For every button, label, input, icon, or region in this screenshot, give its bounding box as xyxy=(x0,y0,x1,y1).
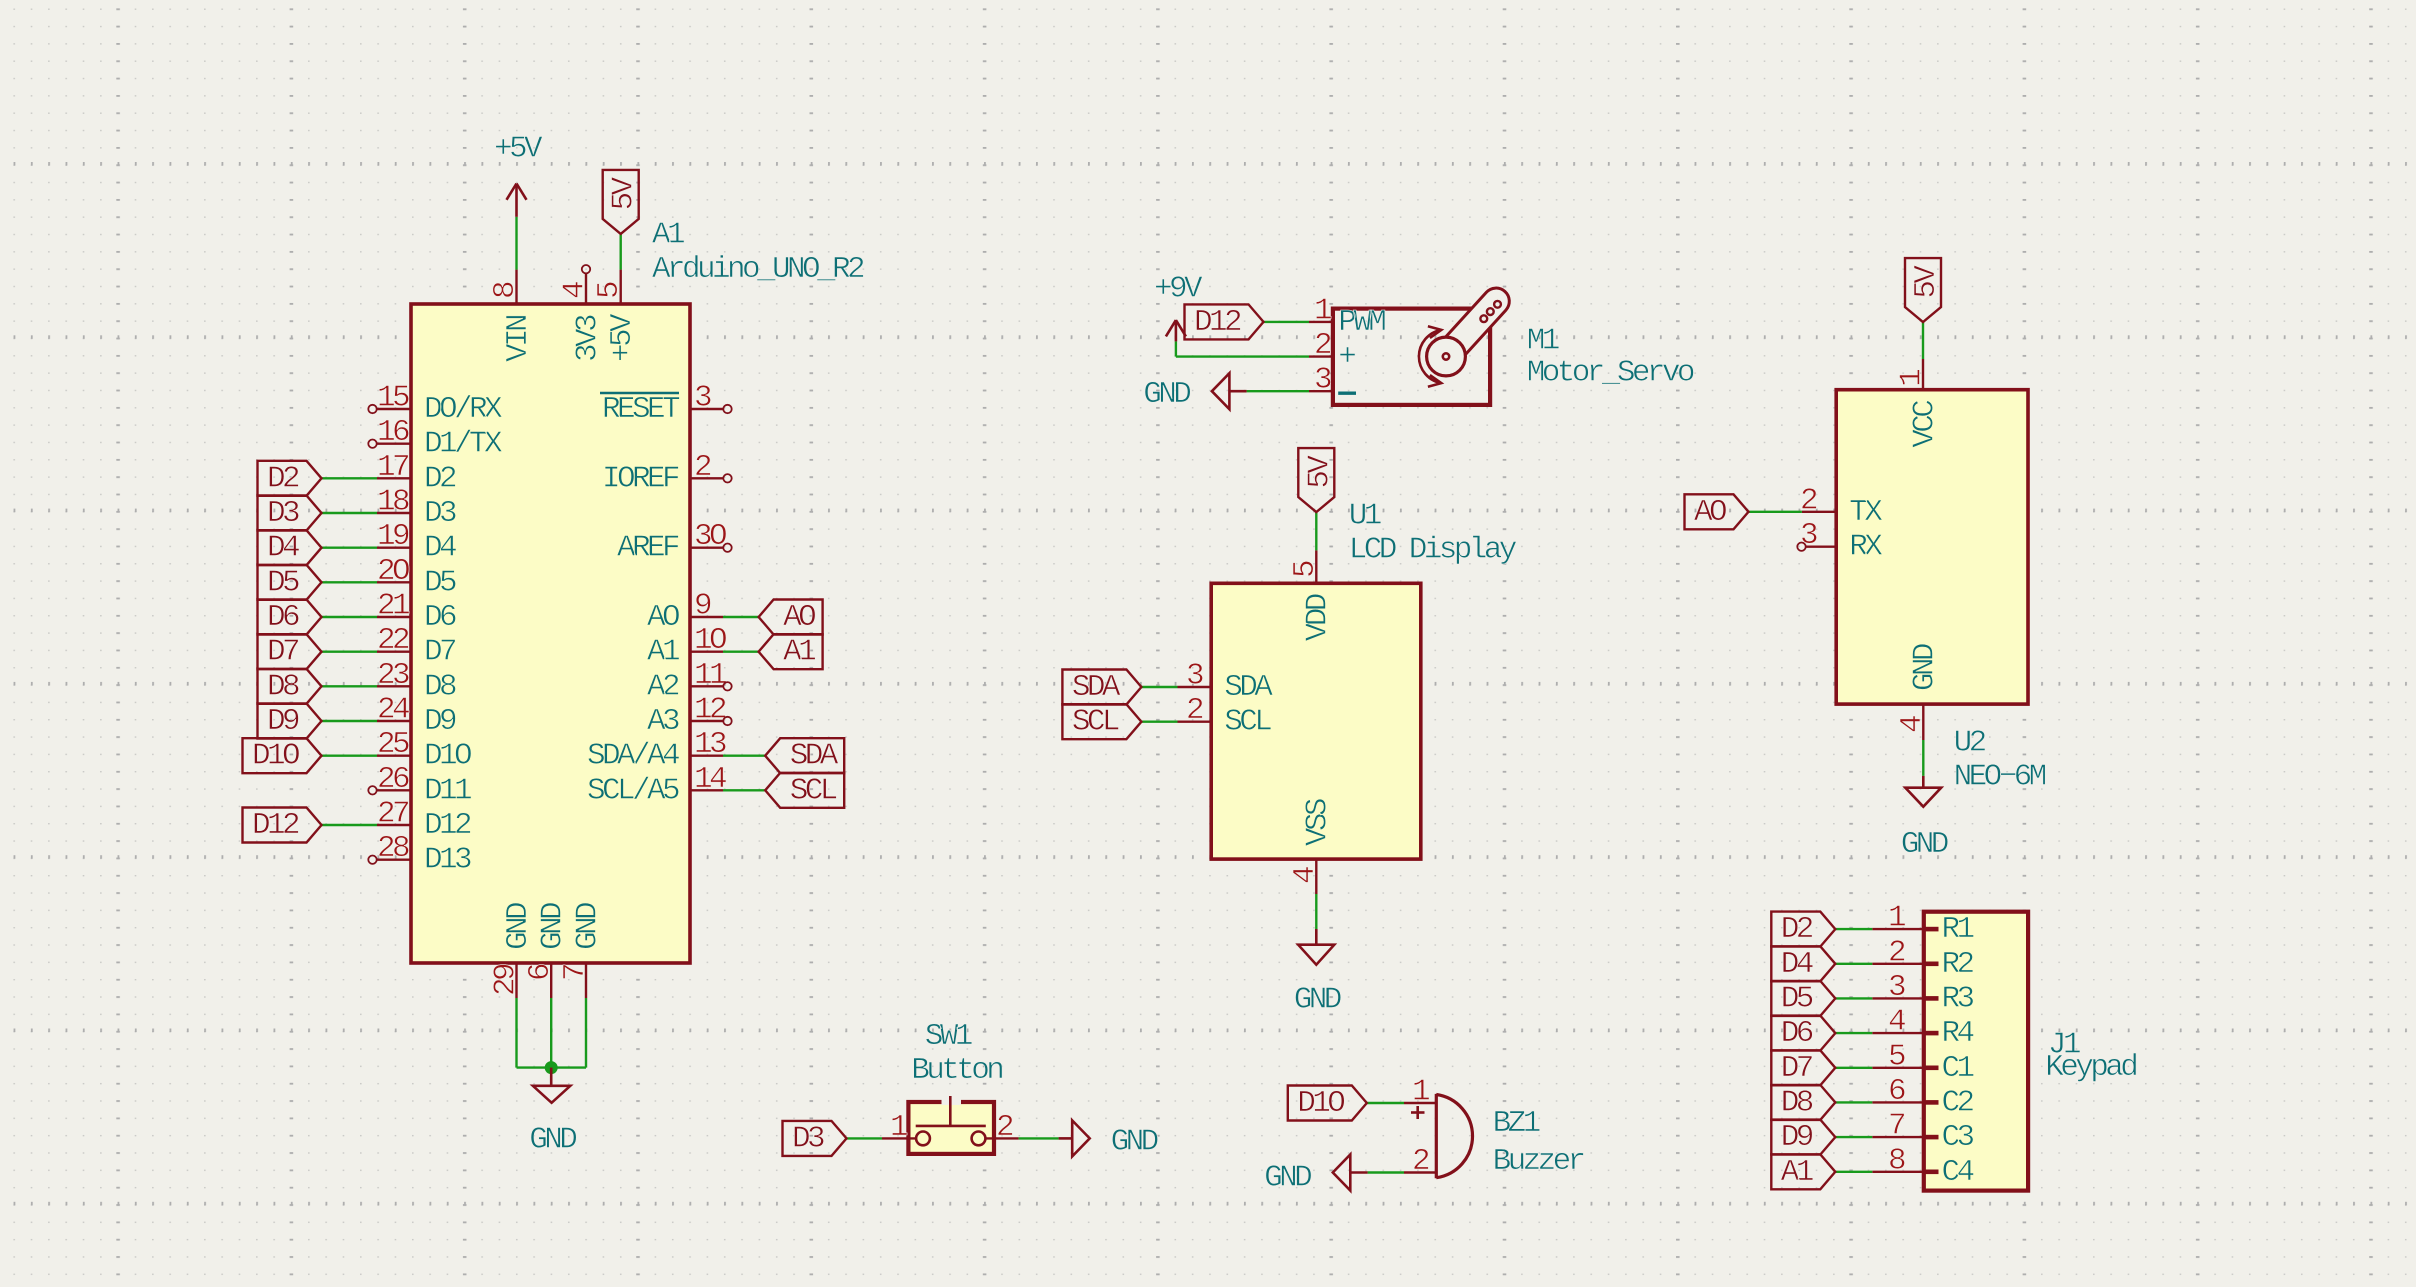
wire 5V to VCC xyxy=(1922,322,1924,359)
servo horn holes xyxy=(1480,315,1487,322)
svg-text:A2: A2 xyxy=(647,669,679,704)
svg-text:D12: D12 xyxy=(1194,305,1241,340)
global label D7 xyxy=(258,634,322,669)
wire to label D4 xyxy=(322,547,378,549)
global label 5V xyxy=(603,170,639,234)
svg-text:29: 29 xyxy=(489,964,524,996)
wire D10 to pin1 xyxy=(1367,1102,1404,1104)
wire D3 to pin1 xyxy=(847,1137,883,1139)
svg-text:VSS: VSS xyxy=(1301,798,1336,846)
svg-text:Button: Button xyxy=(911,1053,1002,1088)
svg-text:D3: D3 xyxy=(424,496,456,531)
svg-text:DO/RX: DO/RX xyxy=(424,392,503,427)
global label A1 xyxy=(1771,1154,1835,1189)
svg-text:AREF: AREF xyxy=(617,531,679,566)
wire D9 to pin 7 xyxy=(1835,1136,1872,1138)
svg-text:GND: GND xyxy=(501,902,536,950)
svg-text:D4: D4 xyxy=(1781,947,1814,982)
power symbol +9V xyxy=(1175,320,1178,341)
symbol M1 Motor_Servo body xyxy=(1333,309,1490,405)
J1 pin 2 R2 xyxy=(1872,963,1924,965)
svg-text:11: 11 xyxy=(694,658,727,693)
svg-text:3: 3 xyxy=(1800,518,1817,553)
svg-text:A3: A3 xyxy=(647,704,679,739)
svg-text:15: 15 xyxy=(377,381,409,416)
BZ1 pin 1 + xyxy=(1404,1102,1437,1104)
A1 pin 30 AREF xyxy=(690,547,723,549)
U2 pin 2 TX xyxy=(1802,511,1836,513)
wire A0 to TX xyxy=(1749,511,1802,513)
SW1 actuator xyxy=(949,1096,952,1126)
svg-text:VDD: VDD xyxy=(1301,593,1336,641)
svg-text:GND: GND xyxy=(1143,377,1191,412)
J1 pin 1 R1 xyxy=(1872,928,1924,930)
A1 pin 26 D11 xyxy=(377,789,411,791)
svg-text:9: 9 xyxy=(694,589,711,624)
svg-text:RESET: RESET xyxy=(602,392,680,427)
svg-text:3: 3 xyxy=(1186,659,1203,694)
svg-text:26: 26 xyxy=(377,762,409,797)
global label D10 xyxy=(1288,1086,1367,1121)
wire 5V to VDD xyxy=(1315,512,1317,550)
A1 pin 3 RESET xyxy=(690,408,723,410)
A1 pin 9 A0 xyxy=(690,616,723,618)
svg-text:GND: GND xyxy=(570,902,605,950)
svg-text:U2: U2 xyxy=(1954,725,1986,760)
svg-text:BZ1: BZ1 xyxy=(1493,1106,1541,1141)
U2 pin 4 GND xyxy=(1922,704,1924,740)
J1 pin 6 C2 xyxy=(1872,1101,1924,1103)
svg-text:AO: AO xyxy=(1694,495,1727,530)
svg-text:19: 19 xyxy=(377,519,409,554)
svg-text:D6: D6 xyxy=(267,600,299,635)
A1 pin 4 3V3 (nc) xyxy=(585,274,587,305)
svg-text:R2: R2 xyxy=(1942,947,1974,982)
wire A1 to pin 8 xyxy=(1835,1171,1872,1173)
wire pin29 down xyxy=(515,998,517,1068)
svg-text:Buzzer: Buzzer xyxy=(1493,1144,1584,1179)
svg-text:5V: 5V xyxy=(1302,455,1337,489)
svg-text:LCD Display: LCD Display xyxy=(1349,532,1517,567)
global label D12 xyxy=(1185,304,1264,339)
A1 pin 24 D9 xyxy=(377,720,411,722)
symbol A1 Arduino_UNO_R2 body xyxy=(411,304,690,963)
svg-text:D8: D8 xyxy=(1781,1085,1813,1120)
svg-text:21: 21 xyxy=(377,589,410,624)
wire pin2 to GND xyxy=(1368,1171,1404,1173)
wire to label D5 xyxy=(322,581,378,583)
wire GND xyxy=(1922,740,1924,776)
wire SCL xyxy=(1141,721,1177,723)
svg-text:16: 16 xyxy=(377,415,409,450)
global label SCL xyxy=(765,773,844,808)
U1 pin 3 SDA xyxy=(1178,686,1212,688)
A1 pin 17 D2 xyxy=(377,477,411,479)
svg-text:M1: M1 xyxy=(1527,324,1560,359)
M1 pin 1 PWM xyxy=(1309,321,1333,323)
power symbol +5V xyxy=(515,184,518,217)
A1 pin 10 A1 xyxy=(690,651,723,653)
A1 pin 22 D7 xyxy=(377,651,411,653)
svg-text:D1O: D1O xyxy=(1297,1086,1345,1121)
svg-text:2: 2 xyxy=(1186,693,1203,728)
svg-text:24: 24 xyxy=(377,693,410,728)
global label D9 xyxy=(258,704,322,739)
J1 pin 8 C4 xyxy=(1872,1171,1924,1173)
svg-text:GND: GND xyxy=(536,902,571,950)
wire to label D6 xyxy=(322,616,378,618)
wire pin7 down xyxy=(585,998,587,1068)
ground symbol GND right xyxy=(1059,1137,1073,1140)
svg-text:D2: D2 xyxy=(267,461,299,496)
svg-text:A1: A1 xyxy=(652,218,685,253)
svg-text:28: 28 xyxy=(377,831,409,866)
global label A0 xyxy=(759,600,823,635)
svg-text:D1O: D1O xyxy=(252,739,300,774)
A1 pin 18 D3 xyxy=(377,512,411,514)
A1 pin 14 SCL/A5 xyxy=(690,789,723,791)
SW1 contacts xyxy=(916,1132,930,1146)
A1 pin 7 GND xyxy=(585,963,587,998)
svg-text:22: 22 xyxy=(377,623,409,658)
A1 pin 6 GND xyxy=(550,963,552,998)
A1 pin 27 D12 xyxy=(377,824,411,826)
SW1 top border gap xyxy=(942,1099,962,1105)
svg-text:A1: A1 xyxy=(647,635,680,670)
wire pin5 to 5V flag xyxy=(620,234,622,270)
wire to label A1 xyxy=(723,651,759,653)
svg-text:U1: U1 xyxy=(1349,498,1382,533)
svg-text:D3: D3 xyxy=(267,496,299,531)
svg-text:+9V: +9V xyxy=(1154,272,1203,307)
global label SCL xyxy=(1062,704,1141,739)
svg-text:6: 6 xyxy=(523,964,558,981)
svg-text:2: 2 xyxy=(694,450,711,485)
svg-text:NEO−6M: NEO−6M xyxy=(1954,760,2046,795)
svg-text:D13: D13 xyxy=(424,843,471,878)
symbol SW1 Button body xyxy=(908,1102,994,1154)
svg-text:D6: D6 xyxy=(1781,1016,1813,1051)
wire +9V vertical xyxy=(1175,341,1177,356)
A1 pin 15 D0/RX xyxy=(377,408,411,410)
J1 pin 5 C1 xyxy=(1872,1067,1924,1069)
svg-text:3O: 3O xyxy=(694,519,727,554)
svg-text:Arduino_UNO_R2: Arduino_UNO_R2 xyxy=(652,252,864,287)
svg-text:5V: 5V xyxy=(1909,265,1944,299)
global label D12 xyxy=(243,808,322,843)
svg-text:27: 27 xyxy=(377,797,409,832)
A1 pin 2 IOREF xyxy=(690,477,723,479)
symbol BZ1 Buzzer body xyxy=(1436,1094,1472,1178)
A1 pin 25 D10 xyxy=(377,755,411,757)
wire D6 to pin 4 xyxy=(1835,1032,1872,1034)
svg-text:C4: C4 xyxy=(1942,1155,1975,1190)
svg-text:A1: A1 xyxy=(783,635,816,670)
svg-text:A1: A1 xyxy=(1781,1155,1814,1190)
A1 pin 28 D13 xyxy=(377,859,411,861)
global label SDA xyxy=(765,738,844,773)
svg-text:GND: GND xyxy=(1901,827,1949,862)
RESET overbar xyxy=(600,392,679,394)
svg-text:VIN: VIN xyxy=(501,315,536,362)
svg-text:D9: D9 xyxy=(267,704,299,739)
global label D3 xyxy=(258,496,322,531)
svg-text:6: 6 xyxy=(1888,1074,1905,1109)
svg-text:8: 8 xyxy=(488,282,523,299)
global label D6 xyxy=(1771,1016,1835,1051)
wire to label SCL xyxy=(723,789,765,791)
svg-text:25: 25 xyxy=(377,727,409,762)
wire to label D12 xyxy=(322,824,378,826)
svg-text:R1: R1 xyxy=(1942,912,1975,947)
M1 pin 2 + xyxy=(1309,355,1333,357)
svg-text:+5V: +5V xyxy=(494,132,543,167)
A1 pin 8 VIN xyxy=(515,270,517,304)
svg-text:TX: TX xyxy=(1849,495,1883,530)
A1 pin 13 SDA/A4 xyxy=(690,755,723,757)
global label 5V xyxy=(1905,258,1941,322)
svg-text:Keypad: Keypad xyxy=(2045,1050,2136,1085)
U1 pin 5 VDD xyxy=(1315,550,1317,583)
wire D8 to pin 6 xyxy=(1835,1101,1872,1103)
global label D7 xyxy=(1771,1050,1835,1085)
svg-text:D2: D2 xyxy=(1781,912,1813,947)
svg-text:D11: D11 xyxy=(424,773,472,808)
A1 pin 12 A3 xyxy=(690,720,723,722)
svg-text:D2: D2 xyxy=(424,461,456,496)
svg-text:AO: AO xyxy=(647,600,680,635)
svg-text:D7: D7 xyxy=(267,635,299,670)
ground symbol GND left xyxy=(1230,390,1247,393)
svg-text:D7: D7 xyxy=(1781,1051,1813,1086)
svg-text:D5: D5 xyxy=(1781,981,1813,1016)
global label D8 xyxy=(258,669,322,704)
A1 pin 5 +5V xyxy=(620,270,622,304)
svg-text:5: 5 xyxy=(592,282,627,299)
svg-text:3: 3 xyxy=(694,381,711,416)
wire pin6 down xyxy=(550,998,552,1068)
svg-text:C1: C1 xyxy=(1942,1051,1975,1086)
wire D4 to pin 2 xyxy=(1835,963,1872,965)
svg-text:D4: D4 xyxy=(267,531,300,566)
wire +9V to pin2 horizontal xyxy=(1176,355,1309,357)
wire D12 to PWM xyxy=(1264,321,1310,323)
global label A1 xyxy=(759,634,823,669)
wire D2 to pin 1 xyxy=(1835,928,1872,930)
svg-text:3V3: 3V3 xyxy=(570,315,605,362)
SW1 pin 2 xyxy=(986,1137,1019,1139)
symbol U2 NEO-6M body xyxy=(1836,390,2028,704)
wire to label D9 xyxy=(322,720,378,722)
wire pin3 to GND xyxy=(1247,390,1309,392)
svg-text:D7: D7 xyxy=(424,635,456,670)
wire VSS to GND xyxy=(1315,894,1317,929)
global label SDA xyxy=(1062,670,1141,705)
global label D8 xyxy=(1771,1085,1835,1120)
svg-text:5: 5 xyxy=(1888,1039,1905,1074)
svg-text:23: 23 xyxy=(377,658,409,693)
servo rotation arrows xyxy=(1419,330,1441,383)
global label D5 xyxy=(1771,981,1835,1016)
global label D2 xyxy=(1771,912,1835,947)
BZ1 pin 2 - xyxy=(1404,1171,1437,1173)
global label D4 xyxy=(258,530,322,565)
wire to label A0 xyxy=(723,616,759,618)
global label D10 xyxy=(243,738,322,773)
svg-text:GND: GND xyxy=(1908,643,1943,691)
A1 pin 19 D4 xyxy=(377,547,411,549)
junction xyxy=(545,1061,558,1074)
wire SDA xyxy=(1141,686,1177,688)
svg-text:C3: C3 xyxy=(1942,1120,1974,1155)
wire D7 to pin 5 xyxy=(1835,1067,1872,1069)
svg-text:17: 17 xyxy=(377,450,409,485)
A1 pin 16 D1/TX xyxy=(377,443,411,445)
A1 pin 21 D6 xyxy=(377,616,411,618)
svg-text:D4: D4 xyxy=(424,531,457,566)
U2 pin 1 VCC xyxy=(1922,359,1924,390)
wire VIN to +5V xyxy=(515,217,517,270)
wire to label D2 xyxy=(322,477,378,479)
svg-text:D5: D5 xyxy=(267,565,299,600)
svg-text:RX: RX xyxy=(1849,530,1883,565)
global label A0 xyxy=(1685,494,1749,529)
svg-text:2: 2 xyxy=(1314,328,1331,363)
A1 pin 20 D5 xyxy=(377,581,411,583)
svg-text:D9: D9 xyxy=(1781,1120,1813,1155)
svg-text:Motor_Servo: Motor_Servo xyxy=(1527,356,1694,391)
U1 pin 2 SCL xyxy=(1178,721,1212,723)
svg-text:IOREF: IOREF xyxy=(602,461,679,496)
svg-text:18: 18 xyxy=(377,485,409,520)
svg-text:PWM: PWM xyxy=(1338,305,1385,340)
A1 pin 29 GND xyxy=(515,963,517,998)
global label 5V xyxy=(1298,448,1334,512)
J1 pin 3 R3 xyxy=(1872,997,1924,999)
wire GND bus horizontal xyxy=(517,1066,587,1068)
wire to label D7 xyxy=(322,651,378,653)
svg-text:R4: R4 xyxy=(1942,1016,1975,1051)
ground symbol GND left xyxy=(1350,1171,1367,1174)
svg-text:GND: GND xyxy=(1264,1161,1312,1196)
svg-text:D5: D5 xyxy=(424,565,456,600)
svg-text:D1/TX: D1/TX xyxy=(424,427,503,462)
svg-text:VCC: VCC xyxy=(1907,400,1942,448)
global label D3 xyxy=(783,1121,847,1156)
wire to label D3 xyxy=(322,512,378,514)
svg-text:GND: GND xyxy=(1111,1125,1159,1160)
ground symbol xyxy=(550,1068,553,1086)
svg-text:13: 13 xyxy=(694,727,726,762)
wire pin2 to GND xyxy=(1019,1137,1059,1139)
wire D5 to pin 3 xyxy=(1835,997,1872,999)
wire to label D10 xyxy=(322,755,378,757)
svg-text:SCL/A5: SCL/A5 xyxy=(587,773,679,808)
svg-text:GND: GND xyxy=(529,1123,577,1158)
svg-text:8: 8 xyxy=(1888,1143,1905,1178)
svg-text:5: 5 xyxy=(1288,561,1323,578)
svg-text:+5V: +5V xyxy=(605,313,640,362)
A1 pin 23 D8 xyxy=(377,685,411,687)
global label D6 xyxy=(258,600,322,635)
svg-text:D3: D3 xyxy=(792,1121,824,1156)
svg-text:2O: 2O xyxy=(377,554,410,589)
J1 pin 7 C3 xyxy=(1872,1136,1924,1138)
svg-text:GND: GND xyxy=(1294,983,1342,1018)
svg-text:SCL: SCL xyxy=(1224,705,1271,740)
svg-text:5V: 5V xyxy=(607,176,642,210)
symbol J1 Keypad body xyxy=(1924,912,2028,1191)
svg-text:2: 2 xyxy=(1888,935,1905,970)
svg-text:SW1: SW1 xyxy=(925,1019,973,1054)
svg-text:AO: AO xyxy=(783,600,816,635)
A1 pin 11 A2 xyxy=(690,685,723,687)
U1 pin 4 VSS xyxy=(1315,859,1317,894)
svg-text:D6: D6 xyxy=(424,600,456,635)
M1 pin 3 - xyxy=(1309,390,1333,392)
svg-text:SDA: SDA xyxy=(1224,670,1273,705)
svg-text:R3: R3 xyxy=(1942,981,1974,1016)
svg-text:D8: D8 xyxy=(424,669,456,704)
svg-text:1O: 1O xyxy=(694,623,727,658)
svg-text:2: 2 xyxy=(1800,483,1817,518)
svg-text:C2: C2 xyxy=(1942,1085,1974,1120)
svg-text:12: 12 xyxy=(694,693,726,728)
svg-text:14: 14 xyxy=(694,762,727,797)
svg-text:2: 2 xyxy=(996,1110,1013,1145)
svg-text:7: 7 xyxy=(558,964,593,981)
svg-text:SDA/A4: SDA/A4 xyxy=(587,739,680,774)
servo horn arm xyxy=(1436,288,1509,365)
ground symbol xyxy=(1315,929,1318,945)
svg-text:D9: D9 xyxy=(424,704,456,739)
svg-text:SCL: SCL xyxy=(790,773,837,808)
svg-text:D12: D12 xyxy=(424,808,471,843)
ground symbol xyxy=(1922,776,1925,788)
svg-text:D12: D12 xyxy=(252,808,299,843)
svg-text:SCL: SCL xyxy=(1072,705,1119,740)
svg-text:+: + xyxy=(1338,340,1355,375)
svg-text:3: 3 xyxy=(1888,970,1905,1005)
wire to label SDA xyxy=(723,755,765,757)
svg-text:SDA: SDA xyxy=(1072,670,1121,705)
global label D5 xyxy=(258,565,322,600)
svg-text:D1O: D1O xyxy=(424,739,472,774)
wire to label D8 xyxy=(322,685,378,687)
servo wheel xyxy=(1427,337,1466,376)
U2 pin 3 RX (nc) xyxy=(1806,546,1836,548)
svg-text:3: 3 xyxy=(1314,363,1331,398)
J1 pin 4 R4 xyxy=(1872,1032,1924,1034)
SW1 pin 1 xyxy=(882,1137,916,1139)
global label D9 xyxy=(1771,1120,1835,1155)
svg-text:D8: D8 xyxy=(267,669,299,704)
symbol U1 LCD Display body xyxy=(1211,583,1421,859)
svg-text:SDA: SDA xyxy=(790,739,839,774)
global label D4 xyxy=(1771,946,1835,981)
global label D2 xyxy=(258,461,322,496)
svg-text:2: 2 xyxy=(1412,1144,1429,1179)
svg-text:7: 7 xyxy=(1888,1109,1905,1144)
